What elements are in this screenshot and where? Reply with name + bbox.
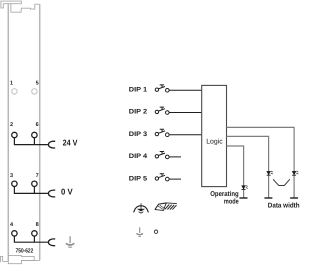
wire earth row (14, 236, 48, 242)
LED operating mode (242, 185, 248, 189)
svg-text:2: 2 (10, 122, 13, 128)
svg-text:Operating: Operating (210, 190, 239, 198)
wire DIP1 to logic (169, 89, 202, 91)
clamp connector 0V (48, 190, 55, 197)
terminal 7 contact (32, 181, 37, 186)
DIP 2 switch (155, 107, 169, 114)
svg-text:mode: mode (224, 198, 239, 206)
clamp connector 24V (48, 141, 55, 148)
svg-text:8: 8 (36, 222, 39, 228)
clamp connector earth (48, 239, 55, 246)
DIP 4 switch (155, 152, 169, 159)
terminal 1 contact (unused, gray) (12, 89, 17, 94)
wire 0V row (14, 187, 48, 194)
terminal 6 contact (32, 132, 37, 137)
terminal 2 contact (12, 132, 17, 137)
svg-text:7: 7 (36, 173, 39, 179)
svg-text:DIP 4: DIP 4 (129, 153, 148, 160)
svg-text:6: 6 (36, 122, 39, 128)
carrier rail left wing (1, 256, 9, 262)
wire logic to operating-mode LED (227, 146, 244, 198)
svg-text:0 V: 0 V (61, 187, 73, 197)
earth arrow (gray) (66, 236, 74, 247)
terminal 3 contact (12, 181, 17, 186)
ground bar data width right (290, 197, 298, 199)
marking pen symbol (155, 203, 177, 211)
wire DIP5 stub (169, 178, 181, 180)
module housing top profile and right edge (11, 4, 40, 13)
terminal 5 contact (unused, gray) (32, 89, 37, 94)
terminal 8 contact (32, 231, 37, 236)
ground bar operating mode (240, 197, 248, 199)
wire DIP2 to logic (169, 112, 202, 114)
svg-text:Logic: Logic (206, 139, 223, 146)
terminal 4 contact (12, 231, 17, 236)
wire logic to data-width right LED (227, 127, 295, 198)
svg-text:750-622: 750-622 (16, 247, 34, 254)
module housing bottom profile (8, 255, 39, 260)
DIP 1 switch (155, 85, 169, 92)
ground bar data width left (264, 197, 272, 199)
svg-text:Data width: Data width (268, 201, 300, 209)
DIP 3 switch (155, 129, 169, 136)
earth-via-rail dome symbol (134, 203, 149, 213)
LED data width left (267, 171, 273, 175)
svg-text:DIP 5: DIP 5 (129, 175, 148, 182)
svg-text:DIP 2: DIP 2 (129, 109, 148, 116)
module housing left edge (7, 4, 9, 261)
small circle marker (154, 230, 157, 233)
svg-text:1: 1 (10, 80, 13, 86)
gray arrow (rail contact) (137, 227, 143, 236)
wire DIP3 to logic (169, 134, 202, 136)
wire logic to data-width left LED (227, 136, 269, 198)
LED data width right (292, 171, 298, 175)
wire 24V row (14, 138, 48, 145)
svg-text:DIP 1: DIP 1 (129, 87, 148, 94)
svg-text:24 V: 24 V (63, 138, 78, 148)
svg-text:5: 5 (36, 80, 39, 86)
DIP 5 switch (155, 174, 169, 181)
module foot in rail channel (8, 261, 34, 264)
svg-text:DIP 3: DIP 3 (129, 131, 148, 138)
wire DIP4 stub (169, 156, 181, 158)
svg-text:3: 3 (10, 173, 13, 179)
module housing top flag profile (1, 1, 21, 8)
selection V bracket (273, 179, 290, 185)
logic box U1 (202, 85, 227, 186)
